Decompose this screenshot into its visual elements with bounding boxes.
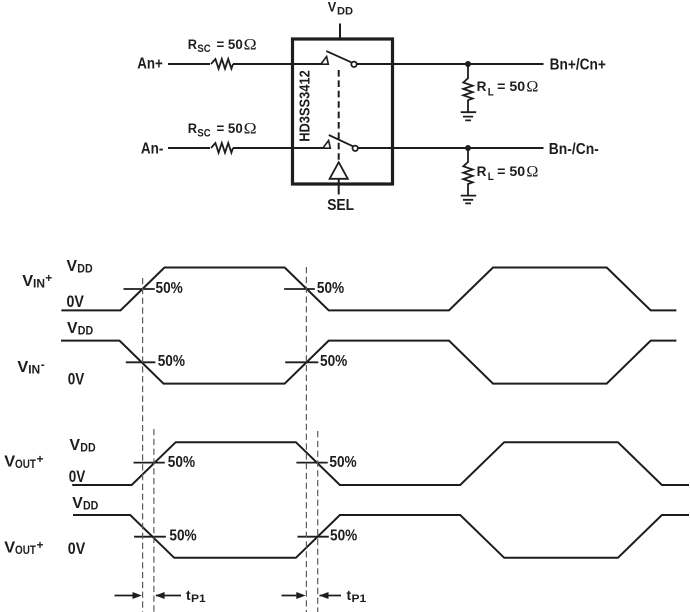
switch S1 arm [326, 51, 351, 62]
tick 50% VOUT- rise [298, 536, 329, 538]
wire VDD stub [339, 24, 341, 40]
arrow tP1 left pair left-pointing [155, 592, 181, 599]
label VDD row3 [70, 437, 96, 455]
svg-text:V: V [67, 320, 78, 337]
svg-text:50%: 50% [330, 527, 357, 544]
wire SEL stub [338, 184, 340, 195]
tick 50% VOUT+ fall [296, 462, 327, 464]
svg-text:50%: 50% [169, 527, 196, 544]
svg-text:V: V [4, 540, 15, 557]
buffer SEL driver [330, 162, 348, 179]
svg-text:IN: IN [28, 363, 40, 377]
wire An- input [168, 147, 210, 149]
svg-text:R: R [188, 121, 198, 136]
svg-text:V: V [67, 258, 78, 275]
label RL2 value [477, 163, 539, 183]
label VDD row2 [67, 320, 93, 338]
wire An+ input [168, 63, 210, 65]
svg-text:An-: An- [141, 141, 164, 158]
svg-text:Ω: Ω [244, 36, 257, 53]
tick 50% VIN+ fall [284, 288, 315, 290]
svg-text:Ω: Ω [526, 79, 538, 96]
label VOUT+ row3 [4, 452, 43, 471]
dashed marker input edge 1 [142, 278, 144, 612]
svg-text:Ω: Ω [244, 121, 257, 138]
svg-text:0V: 0V [68, 539, 86, 558]
svg-text:= 50: = 50 [217, 37, 243, 52]
switch S1 output circle [351, 62, 356, 67]
svg-text:= 50: = 50 [497, 78, 525, 94]
tick 50% VIN- fall [126, 361, 156, 363]
waveform VIN+ [61, 268, 676, 311]
svg-text:SC: SC [197, 43, 210, 55]
svg-text:OUT: OUT [15, 543, 36, 557]
tick 50% VOUT- fall [134, 536, 166, 538]
svg-text:DD: DD [80, 441, 96, 455]
waveform VIN- [61, 341, 676, 384]
wire An+ to switch [233, 63, 321, 65]
svg-text:R: R [188, 37, 198, 52]
svg-text:50%: 50% [320, 353, 347, 370]
svg-text:+: + [37, 452, 44, 466]
IC U1 box HD3SS3412 [293, 39, 393, 184]
svg-text:0V: 0V [69, 467, 86, 486]
label VDD row4 [72, 495, 98, 513]
wire switch S2 output to Bn- [358, 147, 544, 149]
dashed marker output edge 2 [317, 431, 319, 612]
ground GND2 [461, 196, 477, 204]
ground GND1 [461, 112, 477, 120]
switch S2 fixed contact triangle [323, 141, 331, 149]
svg-text:Bn-/Cn-: Bn-/Cn- [549, 141, 599, 158]
switch S2 arm [329, 135, 353, 146]
label VIN- [17, 357, 44, 376]
svg-text:IN: IN [33, 277, 45, 291]
svg-text:Ω: Ω [526, 163, 538, 180]
svg-text:V: V [17, 359, 28, 376]
resistor RL2 [463, 148, 472, 195]
resistor RSC2 [211, 143, 233, 153]
svg-text:L: L [488, 171, 494, 183]
svg-text:0V: 0V [67, 292, 85, 311]
svg-text:L: L [488, 86, 494, 98]
switch S1 fixed contact triangle [321, 57, 329, 65]
arrow tP1 left pair right-pointing [115, 592, 142, 599]
svg-text:50%: 50% [329, 454, 356, 471]
svg-text:An+: An+ [137, 56, 163, 73]
waveform VOUT+ [72, 442, 689, 485]
tick 50% VIN+ rise [124, 288, 155, 290]
label RSC1 value [188, 36, 257, 55]
svg-text:50%: 50% [317, 280, 344, 297]
waveform VOUT- row4 [73, 515, 689, 558]
arrow tP1 right pair left-pointing [319, 592, 341, 599]
svg-text:50%: 50% [168, 454, 195, 471]
svg-text:OUT: OUT [15, 457, 36, 471]
svg-text:SEL: SEL [327, 197, 354, 214]
svg-text:DD: DD [78, 324, 94, 338]
label VOUT+ row4 [4, 538, 43, 557]
svg-text:50%: 50% [156, 280, 183, 297]
svg-text:R: R [477, 163, 487, 179]
switch S2 output circle [353, 146, 358, 151]
svg-text:= 50: = 50 [217, 121, 243, 136]
arrow tP1 right pair right-pointing [282, 592, 306, 599]
label tP1 right [347, 587, 367, 605]
svg-text:-: - [41, 357, 45, 371]
resistor RSC1 [211, 59, 233, 69]
svg-text:V: V [4, 454, 15, 471]
dashed marker input edge 2 [305, 267, 307, 612]
svg-text:V: V [22, 273, 33, 290]
svg-text:V: V [72, 495, 83, 512]
svg-text:SC: SC [197, 127, 210, 139]
svg-text:50%: 50% [158, 353, 185, 370]
svg-text:DD: DD [77, 262, 93, 276]
wire buffer to box edge [338, 179, 340, 184]
svg-text:+: + [45, 271, 52, 285]
svg-text:V: V [70, 437, 81, 454]
power VDD label [328, 0, 353, 18]
wire An- to switch [233, 147, 323, 149]
svg-text:P1: P1 [352, 593, 367, 605]
node junction An-/Bn- [465, 145, 471, 151]
svg-text:V: V [328, 0, 337, 14]
svg-text:P1: P1 [191, 593, 206, 605]
node junction An+/Bn+ [465, 61, 471, 67]
label VDD row1 [67, 258, 93, 276]
svg-text:DD: DD [83, 499, 99, 513]
svg-text:DD: DD [337, 6, 353, 18]
label VIN+ [22, 271, 52, 291]
svg-text:HD3SS3412: HD3SS3412 [297, 70, 314, 142]
svg-text:= 50: = 50 [497, 163, 525, 179]
control line dashed [338, 70, 340, 162]
wire switch S1 output to Bn+ [357, 63, 544, 65]
dashed marker output edge 1 [153, 429, 155, 612]
svg-text:Bn+/Cn+: Bn+/Cn+ [550, 57, 606, 74]
label RSC2 value [188, 121, 257, 140]
resistor RL1 [463, 64, 472, 112]
svg-text:0V: 0V [68, 370, 85, 389]
tick 50% VIN- rise [285, 361, 318, 363]
svg-text:R: R [477, 78, 487, 94]
label tP1 left [186, 587, 206, 605]
svg-text:+: + [37, 538, 44, 552]
label RL1 value [477, 78, 539, 98]
tick 50% VOUT+ rise [134, 462, 165, 464]
